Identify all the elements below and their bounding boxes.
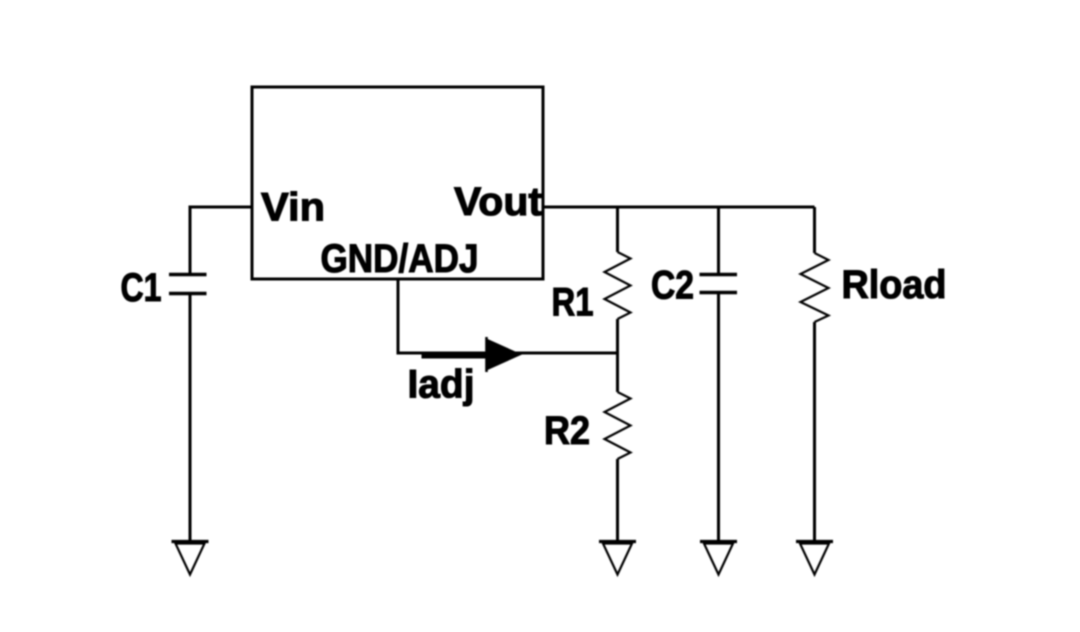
- ground (C2): [700, 542, 737, 575]
- wire C1 to ground: [189, 295, 192, 541]
- wire C2 to ground: [717, 294, 720, 541]
- svg-text:GND/ADJ: GND/ADJ: [321, 237, 479, 281]
- ground (Rload): [796, 542, 833, 575]
- svg-text:Rload: Rload: [842, 263, 947, 307]
- svg-text:C1: C1: [121, 266, 162, 310]
- wire Vin input: [190, 207, 252, 274]
- resistor R2: [605, 392, 631, 459]
- resistor Rload: [801, 253, 829, 322]
- regulator U1 box: [252, 87, 543, 279]
- capacitor C2: [700, 275, 738, 293]
- svg-text:R2: R2: [544, 409, 590, 453]
- wire R1 to R2: [616, 319, 619, 392]
- wire Vout rail: [543, 206, 815, 209]
- svg-text:Vout: Vout: [454, 180, 542, 224]
- wire GND/ADJ to Iadj node: [398, 279, 618, 353]
- capacitor C1: [169, 275, 207, 294]
- svg-text:C2: C2: [651, 264, 694, 308]
- svg-text:Iadj: Iadj: [408, 363, 475, 407]
- wire Rload to ground: [813, 322, 816, 541]
- wire R2 to ground: [616, 459, 619, 541]
- svg-text:R1: R1: [552, 281, 594, 325]
- resistor R1: [605, 252, 631, 319]
- svg-text:Vin: Vin: [261, 186, 325, 230]
- ground (R2): [599, 542, 636, 575]
- wire Vout to Rload: [813, 207, 816, 253]
- wire Vout to R1: [616, 207, 619, 252]
- wire Vout to C2: [717, 207, 720, 273]
- arrow Iadj: [422, 337, 523, 372]
- ground (C1): [172, 542, 209, 575]
